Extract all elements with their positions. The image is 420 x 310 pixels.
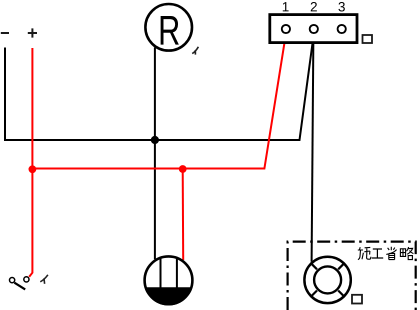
lamp receptacle left terminal line bbox=[160, 257, 162, 288]
ceiling light spoke SW bbox=[310, 291, 317, 298]
node red junction dot mid bbox=[179, 165, 187, 173]
switch contact right circle bbox=[24, 277, 29, 282]
ceiling light inner circle bbox=[314, 266, 341, 293]
ceiling light spoke SE bbox=[338, 291, 345, 298]
pin number 3 bbox=[338, 2, 344, 12]
plus terminal label bbox=[28, 28, 37, 37]
ceiling light outer circle bbox=[304, 257, 350, 303]
lamp receptacle right terminal line bbox=[176, 257, 178, 288]
transformer R circle bbox=[145, 4, 192, 51]
terminal block box bbox=[270, 15, 357, 43]
lamp receptacle circle bbox=[145, 256, 193, 304]
wire black supply: down from minus, across, diagonal up to terminal 2 bbox=[5, 34, 314, 140]
label イ at transformer bbox=[192, 47, 198, 55]
lamp receptacle filled base bbox=[145, 287, 192, 305]
terminal 1 circle bbox=[282, 25, 290, 33]
text 略 (char 4) bbox=[400, 247, 413, 260]
wire black from transformer R down to lamp bbox=[154, 48, 156, 260]
terminal 2 circle bbox=[310, 25, 318, 33]
transformer R letter bbox=[161, 16, 179, 45]
text 省 (char 3) bbox=[386, 247, 396, 260]
wire red down to lamp bbox=[182, 169, 185, 260]
pin number 2 bbox=[311, 2, 317, 11]
ceiling light spoke NE bbox=[338, 263, 345, 270]
wire red horizontal, diagonal up to terminal 1 bbox=[32, 34, 286, 169]
wire black terminal 2 down to ceiling light bbox=[312, 34, 314, 262]
switch blade bbox=[14, 283, 25, 290]
small square symbol at ceiling light bbox=[352, 295, 362, 304]
node junction black dot bbox=[151, 136, 159, 144]
switch contact left circle bbox=[10, 278, 15, 283]
label イ at switch bbox=[40, 275, 48, 284]
wire red supply: down from plus to switch bbox=[29, 48, 32, 277]
small square symbol right of terminal block bbox=[363, 35, 373, 43]
node red junction dot left bbox=[29, 165, 37, 173]
terminal 3 circle bbox=[338, 25, 346, 33]
pin number 1 bbox=[283, 2, 289, 11]
text 施 (construction-omitted label char 1) bbox=[358, 247, 371, 259]
boundary dash-dot box construction omitted bbox=[288, 242, 416, 310]
ceiling light spoke NW bbox=[310, 263, 317, 270]
text 工 (char 2) bbox=[372, 249, 384, 258]
minus terminal label bbox=[1, 32, 9, 34]
